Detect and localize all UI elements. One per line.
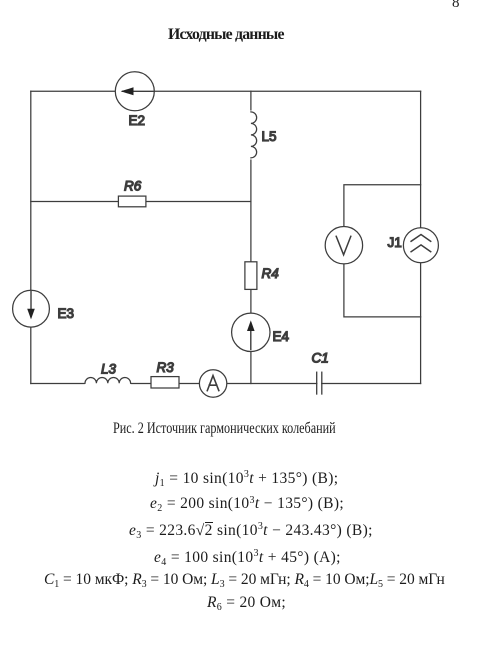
formula e3 <box>129 522 373 540</box>
title <box>168 26 284 44</box>
voltmeter V <box>325 227 362 264</box>
wire voltmeter branch <box>344 185 421 317</box>
page number <box>452 0 460 12</box>
svg-text:E4: E4 <box>273 329 290 344</box>
ammeter A <box>199 370 226 397</box>
wire bottom <box>31 383 421 385</box>
inductor L3 <box>85 376 131 386</box>
source E4 <box>232 313 270 351</box>
wire middle branch <box>250 91 252 383</box>
inductor L5 <box>244 111 258 160</box>
wire left <box>30 91 32 383</box>
svg-text:R4: R4 <box>262 266 279 281</box>
svg-text:J1: J1 <box>388 235 402 250</box>
resistor R3 <box>151 377 179 388</box>
formula e2 <box>150 495 344 513</box>
wire R6 branch <box>31 201 251 203</box>
formula params <box>44 571 445 589</box>
caption <box>113 420 336 438</box>
wire right <box>420 91 422 383</box>
formula e4 <box>154 549 341 567</box>
wire top <box>31 90 421 92</box>
svg-text:R6: R6 <box>124 179 142 194</box>
resistor R6 <box>118 196 145 207</box>
formula j1 <box>155 470 338 488</box>
svg-text:E3: E3 <box>58 306 75 321</box>
svg-text:R3: R3 <box>157 360 175 375</box>
svg-text:L3: L3 <box>101 362 117 377</box>
current source J1 <box>403 228 438 263</box>
resistor R4 <box>245 262 257 290</box>
source E3 <box>13 290 50 327</box>
svg-text:L5: L5 <box>262 129 277 144</box>
formula R6 <box>207 594 286 612</box>
capacitor C1 <box>317 372 322 394</box>
source E2 <box>115 72 154 111</box>
svg-text:E2: E2 <box>129 113 146 128</box>
svg-text:C1: C1 <box>312 351 329 366</box>
